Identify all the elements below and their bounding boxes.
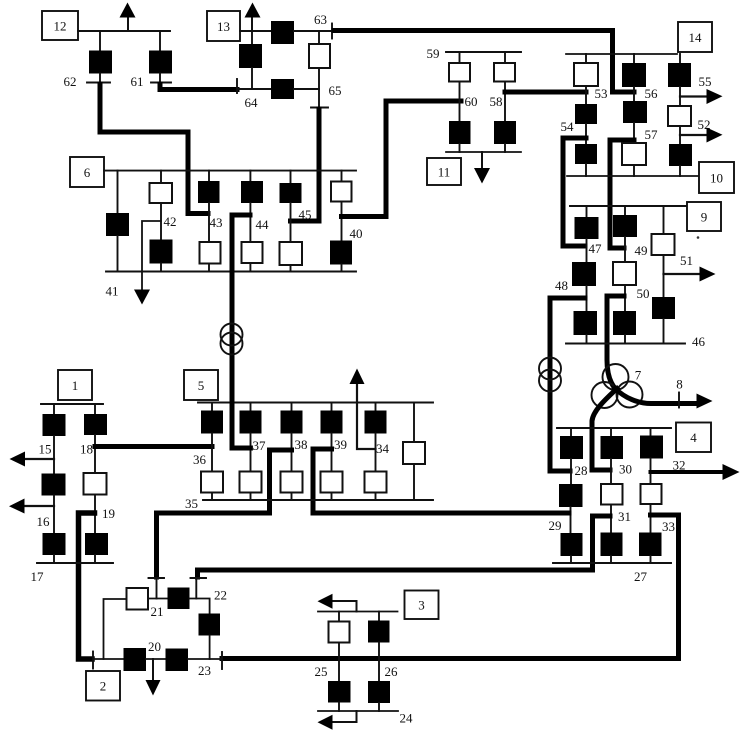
svg-text:13: 13 bbox=[217, 19, 230, 34]
bus 13 bbox=[240, 30, 271, 32]
feeder box 2 bbox=[86, 671, 120, 701]
breaker 55 (closed) bbox=[668, 63, 691, 87]
switch 31 upper (open) bbox=[601, 484, 623, 505]
switch 58 upper (open) bbox=[494, 63, 515, 82]
wire breaker 40 to bus6 lower bbox=[341, 265, 343, 272]
wire bus4 to breaker 30 bbox=[610, 428, 612, 436]
breaker 16 lower (closed) bbox=[43, 533, 66, 555]
svg-text:7: 7 bbox=[635, 368, 642, 383]
wire node 47 bbox=[586, 239, 588, 262]
bus 3 bbox=[318, 611, 398, 613]
wire bus5 to breaker 36 bbox=[211, 403, 213, 411]
wire node 15 bbox=[53, 436, 55, 474]
svg-text:38: 38 bbox=[295, 437, 308, 452]
switch 45 lower (open) bbox=[280, 242, 303, 265]
load arrow 15 (left) bbox=[25, 458, 54, 460]
svg-text:64: 64 bbox=[245, 95, 259, 110]
generation arrow at bus 13 bbox=[251, 14, 253, 31]
wire line 48 to node 28 via transformer (thick) bbox=[550, 298, 585, 471]
wire node 16 bbox=[53, 496, 55, 534]
wire switch 43 to bus6 lower bbox=[208, 264, 210, 272]
wire bus13 to switch 65 bbox=[318, 31, 320, 44]
wire bus9 to breaker 47 bbox=[586, 206, 588, 217]
breaker 54 lower (closed) bbox=[575, 144, 597, 164]
svg-text:10: 10 bbox=[710, 171, 723, 186]
wire node 34 bbox=[375, 434, 377, 472]
wire bus4 to breaker 32 bbox=[650, 428, 652, 436]
wire node 32 bbox=[650, 459, 652, 485]
tick node 65 bbox=[311, 107, 328, 109]
breaker 29 lower (closed) bbox=[561, 533, 583, 556]
switch 64 (closed) bbox=[271, 79, 294, 99]
generation arrow 34 (up) bbox=[357, 384, 376, 449]
svg-text:35: 35 bbox=[185, 496, 198, 511]
breaker 31 lower (closed) bbox=[601, 533, 623, 557]
wire switch 42 to breaker 42 bbox=[160, 203, 162, 240]
tick node 8 bbox=[678, 393, 680, 408]
svg-text:47: 47 bbox=[589, 241, 603, 256]
wire breaker 62 to tick bbox=[99, 74, 101, 83]
svg-text:15: 15 bbox=[39, 442, 52, 457]
bus 14 bbox=[566, 53, 678, 55]
svg-text:41: 41 bbox=[106, 284, 119, 299]
load arrow wire at bus 3 bbox=[333, 601, 357, 612]
svg-text:54: 54 bbox=[561, 119, 575, 134]
wire line 61 to node 64 (thick) bbox=[160, 84, 237, 90]
svg-text:36: 36 bbox=[193, 452, 207, 467]
svg-text:18: 18 bbox=[80, 442, 93, 457]
breaker 44 upper (closed) bbox=[241, 181, 263, 203]
tie line 38-21 (thick) bbox=[157, 450, 292, 577]
wire breaker 16 to bus17 bbox=[53, 555, 55, 563]
svg-text:4: 4 bbox=[690, 430, 697, 445]
wire line 50 to transformer 7 (thick) bbox=[607, 296, 624, 390]
tick node 2 bbox=[92, 652, 94, 669]
switch 55-52 (open) bbox=[668, 106, 691, 126]
wire node 48 bbox=[586, 286, 588, 311]
svg-text:5: 5 bbox=[198, 378, 205, 393]
svg-text:42: 42 bbox=[164, 214, 177, 229]
wire node 51 bbox=[663, 255, 665, 297]
switch 33 upper (open) bbox=[641, 484, 662, 504]
wire bus1 to breaker 15 bbox=[53, 404, 55, 414]
switch 18 lower (open) bbox=[84, 473, 107, 495]
svg-text:28: 28 bbox=[575, 463, 588, 478]
wire bus12 to breaker 62 bbox=[99, 31, 101, 51]
wire breaker 47 to bus46 bbox=[586, 335, 588, 344]
long tie line 31-22 (thick, west) bbox=[198, 570, 593, 577]
breaker 29 upper (closed) bbox=[559, 484, 583, 507]
svg-text:9: 9 bbox=[701, 210, 708, 225]
wire line 33 to long south line (thick) bbox=[222, 515, 679, 659]
svg-text:27: 27 bbox=[634, 569, 648, 584]
svg-text:37: 37 bbox=[253, 438, 267, 453]
breaker 61 (closed) bbox=[149, 51, 172, 74]
bus 4 bbox=[557, 427, 671, 429]
bus 17 bbox=[37, 562, 113, 564]
wire bus6 to switch 42 bbox=[160, 171, 162, 183]
breaker 41 (closed) bbox=[106, 213, 129, 236]
switch 34 lower (open) bbox=[365, 472, 387, 493]
breaker 25 lower (closed) bbox=[328, 681, 351, 703]
breaker 43 upper (closed) bbox=[198, 181, 220, 203]
breaker 47 upper (closed) bbox=[575, 217, 599, 239]
svg-text:31: 31 bbox=[618, 509, 631, 524]
wire breaker 52 to bus10 bbox=[679, 166, 681, 176]
breaker 20 (closed) bbox=[124, 648, 147, 671]
wire node 19 bbox=[94, 495, 96, 534]
wire breaker 54 to bus10 bbox=[585, 164, 587, 176]
breaker 32 (closed) bbox=[640, 436, 663, 459]
switch 57 lower (open) bbox=[622, 143, 646, 165]
svg-text:1: 1 bbox=[72, 378, 79, 393]
wire bus13 to breaker 13 bbox=[251, 31, 253, 44]
bus 1 bbox=[41, 403, 103, 405]
wire node 18 bbox=[94, 435, 96, 473]
wire line 54 to node 47 (thick) bbox=[563, 138, 586, 246]
feeder box 4 bbox=[676, 423, 711, 453]
feeder box 12 bbox=[42, 11, 78, 40]
wire bus3 to breaker 26 bbox=[378, 612, 380, 621]
wire breaker 19 to bus17 bbox=[94, 555, 96, 563]
wire bus1 to breaker 18 bbox=[94, 404, 96, 414]
wire bus12 to breaker 61 bbox=[159, 31, 161, 51]
wire switch 45 to bus6 lower bbox=[290, 265, 292, 272]
svg-text:56: 56 bbox=[645, 86, 659, 101]
wire breaker 58 to bus11 bbox=[504, 144, 506, 152]
switch 25 upper (open) bbox=[329, 622, 350, 643]
switch 42 upper (open) bbox=[150, 183, 173, 203]
breaker 39 upper (closed) bbox=[321, 411, 343, 434]
three-winding transformer 7 circle top bbox=[603, 364, 629, 390]
wire transformer 7 to node 30 (thick) bbox=[592, 389, 617, 471]
feeder box 9 bbox=[687, 202, 721, 231]
tick node 22-top bbox=[191, 577, 207, 579]
wire breaker 31 to bus27 bbox=[610, 556, 612, 563]
wire tick to switch 64 bbox=[237, 88, 271, 90]
wire bus59 to switch 58 bbox=[504, 52, 506, 63]
svg-text:30: 30 bbox=[619, 462, 632, 477]
breaker 58 lower (closed) bbox=[494, 121, 516, 144]
wire node 36 bbox=[211, 434, 213, 472]
svg-text:44: 44 bbox=[256, 217, 270, 232]
breaker 22 left (closed) bbox=[168, 588, 190, 610]
wire breaker 20 to breaker 23 bbox=[146, 658, 166, 660]
wire node 37 bbox=[250, 434, 252, 472]
svg-text:57: 57 bbox=[645, 127, 659, 142]
tick node 62 bbox=[87, 82, 110, 84]
tick node 64-left bbox=[236, 79, 238, 93]
breaker 56 (closed) bbox=[622, 63, 646, 87]
bus 10 bbox=[567, 175, 699, 177]
bus 9 bbox=[570, 205, 687, 207]
wire tick to node 21 bbox=[156, 579, 158, 599]
switch 53 (open) bbox=[574, 63, 598, 86]
wire bus59 to switch 60 bbox=[459, 52, 461, 63]
breaker 60 lower (closed) bbox=[449, 121, 471, 144]
load arrow 55 (right) bbox=[680, 95, 708, 97]
wire breaker 26 to bus24 bbox=[378, 703, 380, 711]
svg-text:46: 46 bbox=[692, 334, 706, 349]
load arrow 20 (down) bbox=[152, 659, 154, 681]
wire node 52 bbox=[679, 126, 681, 144]
breaker 26 lower (closed) bbox=[368, 681, 390, 703]
load arrow 11 (down) bbox=[481, 152, 483, 170]
breaker 48 (closed) bbox=[572, 262, 596, 286]
switch 40 upper (open) bbox=[331, 182, 352, 202]
breaker 33 lower (closed) bbox=[639, 533, 662, 557]
bus 27 bbox=[553, 562, 671, 564]
tick node 61 bbox=[151, 82, 171, 84]
wire line 31 to tie (thick, to long west line) bbox=[593, 516, 611, 570]
wire node 30 bbox=[610, 459, 612, 484]
wire node 53 bbox=[585, 86, 587, 104]
bus 24 bbox=[318, 710, 398, 712]
wire switch 37 to bus35 bbox=[250, 493, 252, 501]
wire node 43 bbox=[208, 203, 210, 242]
wire bus6 to switch 40 bbox=[341, 171, 343, 182]
wire bus9 to switch 51 bbox=[663, 206, 665, 234]
breaker 37 upper (closed) bbox=[240, 411, 262, 434]
svg-text:50: 50 bbox=[637, 286, 650, 301]
svg-text:12: 12 bbox=[54, 19, 67, 34]
feeder box 6 bbox=[70, 157, 104, 187]
bus 46 bbox=[566, 343, 685, 345]
svg-text:23: 23 bbox=[198, 663, 211, 678]
wire bus5 to breaker 38 bbox=[291, 403, 293, 411]
wire node 40 bbox=[341, 202, 343, 241]
tie line 39-29 (thick) bbox=[313, 449, 569, 513]
bus 5 bbox=[198, 402, 433, 404]
wire bus6 col left upper bbox=[117, 171, 119, 213]
wire bus14 to switch 53 bbox=[585, 54, 587, 63]
transformer T2 circle a bbox=[539, 358, 561, 380]
svg-text:51: 51 bbox=[680, 253, 693, 268]
wire bus5 to breaker 34 bbox=[375, 403, 377, 411]
load arrow 8 (right) bbox=[697, 394, 713, 409]
switch 50 (open) bbox=[613, 262, 636, 285]
load arrow 32 (right, thick) bbox=[651, 470, 727, 474]
svg-text:53: 53 bbox=[595, 86, 608, 101]
wire bus3 to switch 25 bbox=[338, 612, 340, 622]
breaker 54 upper (closed) bbox=[575, 104, 597, 124]
wire node 49 bbox=[624, 237, 626, 262]
wire node 31 bbox=[610, 505, 612, 533]
wire switch 64 to node 65 bbox=[294, 88, 319, 90]
transformer T1 circle b bbox=[221, 333, 243, 355]
tie line 19 to bus 2 loop (thick) bbox=[79, 513, 95, 659]
breaker 38 upper (closed) bbox=[281, 411, 303, 434]
svg-text:59: 59 bbox=[427, 46, 440, 61]
switch 44 lower (open) bbox=[242, 242, 263, 263]
svg-text:6: 6 bbox=[84, 165, 91, 180]
switch 43 lower (open) bbox=[200, 242, 221, 264]
wire node 33 bbox=[650, 504, 652, 533]
wire switch 21 to breaker 22L bbox=[148, 598, 168, 600]
wire switch 65 to tick bbox=[318, 68, 320, 107]
bus 6 upper bbox=[104, 170, 356, 172]
tie line 18-36 (thick) bbox=[95, 444, 212, 449]
wire node 55 bbox=[679, 87, 681, 106]
wire breaker 25 to bus24 bbox=[338, 703, 340, 712]
wire breaker 33 to bus27 bbox=[650, 556, 652, 563]
svg-text:22: 22 bbox=[214, 588, 227, 603]
svg-text:34: 34 bbox=[376, 441, 390, 456]
wire switch 63 to tick bbox=[294, 30, 332, 32]
load arrow 52 (right) bbox=[680, 134, 708, 136]
wire tick to node 22 bbox=[195, 579, 197, 599]
feeder box 5 bbox=[184, 370, 218, 400]
breaker 15 mid (closed) bbox=[42, 474, 66, 496]
svg-text:40: 40 bbox=[350, 226, 363, 241]
feeder box 14 bbox=[678, 22, 712, 52]
switch 35-right (open) bbox=[403, 442, 425, 464]
wire bus6 to breaker 44 bbox=[249, 171, 251, 181]
wire line 63 to node 56 (thick tie to section 14) bbox=[334, 31, 634, 93]
svg-text:8: 8 bbox=[676, 377, 683, 392]
svg-text:48: 48 bbox=[555, 278, 568, 293]
wire node 26 bbox=[378, 643, 380, 682]
breaker 36 upper (closed) bbox=[201, 411, 223, 434]
breaker 34 (closed) bbox=[365, 411, 387, 434]
wire node 57 bbox=[633, 123, 635, 143]
feeder box 10 bbox=[699, 162, 734, 193]
switch 60 upper (open) bbox=[449, 63, 470, 82]
breaker under bus 13 (closed) bbox=[239, 44, 262, 68]
breaker 26 upper (closed) bbox=[368, 621, 390, 643]
wire node 39 bbox=[331, 434, 333, 472]
svg-text:63: 63 bbox=[314, 12, 327, 27]
wire node 56 bbox=[633, 87, 635, 101]
svg-text:45: 45 bbox=[299, 207, 312, 222]
breaker 23 (closed) bbox=[166, 649, 189, 672]
wire bus5 right column bbox=[413, 403, 415, 443]
bus 12 bbox=[78, 30, 170, 32]
wire bus5 to breaker 39 bbox=[331, 403, 333, 411]
switch 65 (open) bbox=[309, 44, 330, 68]
svg-text:19: 19 bbox=[102, 506, 115, 521]
wire node 38 bbox=[291, 434, 293, 472]
wire node 25 bbox=[338, 643, 340, 682]
load arrow wire at bus 24 bbox=[333, 711, 357, 722]
svg-text:26: 26 bbox=[385, 664, 399, 679]
wire switch 34 to bus35 bbox=[375, 493, 377, 501]
svg-text:20: 20 bbox=[148, 639, 161, 654]
wire line 62 to node 43 (thick feeder tie) bbox=[100, 84, 208, 214]
load arrow 3 (left) bbox=[318, 594, 333, 609]
svg-text:33: 33 bbox=[662, 519, 675, 534]
bus 59 bbox=[446, 51, 521, 53]
breaker 30 (closed) bbox=[601, 436, 624, 459]
svg-text:21: 21 bbox=[151, 604, 164, 619]
wire node 29 bbox=[570, 507, 572, 533]
svg-text:62: 62 bbox=[64, 74, 77, 89]
switch 38 lower (open) bbox=[281, 472, 303, 493]
dot artifact near box 9 bbox=[697, 236, 700, 239]
wire node 21 loop left bbox=[104, 599, 127, 659]
wire breaker 61 to tick bbox=[159, 74, 161, 83]
switch 37 lower (open) bbox=[240, 472, 262, 493]
svg-text:2: 2 bbox=[100, 679, 107, 694]
breaker 15 upper (closed) bbox=[43, 414, 66, 436]
wire tick2 to breaker 20 bbox=[93, 658, 124, 660]
wire switch 57 to bus10 bbox=[633, 165, 635, 176]
tick node 63 bbox=[331, 24, 333, 39]
bus 35 bbox=[203, 499, 433, 501]
breaker 62 (closed) bbox=[89, 51, 112, 74]
svg-text:60: 60 bbox=[465, 94, 478, 109]
wire breaker 49 to bus46 bbox=[624, 335, 626, 344]
wire right column to bus35 bbox=[413, 464, 415, 500]
svg-text:16: 16 bbox=[37, 514, 51, 529]
svg-text:65: 65 bbox=[329, 83, 342, 98]
wire bus4 to breaker 28 bbox=[570, 428, 572, 436]
feeder box 13 bbox=[207, 11, 240, 41]
wire node 28 bbox=[570, 459, 572, 484]
breaker 22 right (closed) bbox=[199, 614, 221, 636]
bus 6 lower bbox=[106, 271, 356, 273]
generation arrow at bus 12 bbox=[127, 14, 129, 31]
svg-text:49: 49 bbox=[635, 243, 648, 258]
svg-text:43: 43 bbox=[210, 215, 223, 230]
switch 39 lower (open) bbox=[321, 472, 343, 493]
svg-text:25: 25 bbox=[315, 664, 328, 679]
wire line 57 to node 49 (thick) bbox=[610, 140, 634, 248]
breaker 42 lower (closed) bbox=[150, 240, 173, 264]
wire switch 44 to bus6 lower bbox=[249, 263, 251, 272]
wire col left lower bbox=[117, 236, 119, 272]
wire breaker 60 to bus11 bbox=[459, 144, 461, 152]
load arrow 41 (down) bbox=[134, 290, 150, 305]
wire breaker 51 to bus46 bbox=[663, 319, 665, 344]
breaker 19 (closed) bbox=[85, 533, 108, 555]
wire breaker 29 to bus27 bbox=[570, 556, 572, 563]
three-winding transformer 7 circle lower-left bbox=[592, 382, 618, 408]
svg-text:17: 17 bbox=[31, 569, 45, 584]
three-winding transformer 7 circle lower-right bbox=[617, 382, 643, 408]
transformer T2 circle b bbox=[539, 370, 561, 392]
wire breaker 13 to node 64 bbox=[251, 68, 253, 89]
svg-text:29: 29 bbox=[549, 518, 562, 533]
bus 11 bbox=[446, 151, 521, 153]
wire bus14 to breaker 56 bbox=[633, 54, 635, 63]
tie line 37-44 via transformer T1 (thick) bbox=[232, 215, 250, 448]
breaker 57 upper (closed) bbox=[623, 101, 647, 123]
breaker 49 lower (closed) bbox=[613, 311, 636, 335]
svg-text:58: 58 bbox=[490, 94, 503, 109]
wire breaker 22L to breaker 22R bbox=[190, 599, 210, 614]
svg-text:11: 11 bbox=[438, 165, 451, 180]
wire node 60 bbox=[459, 82, 461, 122]
load arrow 51 (right) bbox=[664, 273, 702, 275]
wire line 58 to node 53 (thick) bbox=[505, 90, 586, 95]
breaker 28 (closed) bbox=[560, 436, 583, 459]
svg-text:55: 55 bbox=[699, 74, 712, 89]
wire line 40 to node 60 (thick) bbox=[342, 101, 462, 217]
svg-text:24: 24 bbox=[400, 711, 414, 726]
wire node 44 bbox=[249, 203, 251, 242]
svg-text:39: 39 bbox=[334, 437, 347, 452]
transformer T1 circle a bbox=[221, 324, 243, 346]
breaker 52 lower (closed) bbox=[669, 144, 692, 166]
switch 21 (open) bbox=[127, 588, 149, 610]
tick node 21-top bbox=[149, 577, 165, 579]
wire bus9 to breaker 49 bbox=[624, 206, 626, 215]
wire node 54 bbox=[585, 124, 587, 144]
wire switch 38 to bus35 bbox=[291, 493, 293, 501]
wire node 45 bbox=[290, 203, 292, 242]
load arrow 24 (left) bbox=[318, 715, 333, 730]
